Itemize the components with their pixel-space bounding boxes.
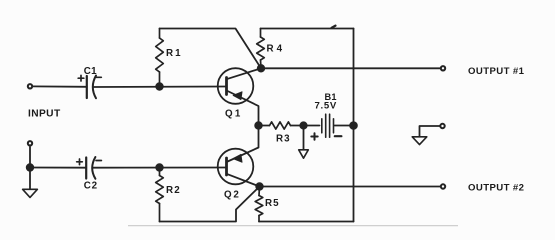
ground right [412,137,427,145]
svg-text:Q2: Q2 [224,190,241,201]
svg-text:R2: R2 [166,185,181,196]
resistor R4 [257,29,265,69]
node Q2 collector junction [256,183,263,190]
node battery plus junction [300,122,306,128]
capacitor C2 [77,157,102,179]
wire C2 to Q2 base [92,167,226,169]
wire battery node to ground [303,126,305,150]
node emitter junction [255,122,262,129]
svg-text:OUTPUT #1: OUTPUT #1 [468,66,525,77]
terminal output 1 [441,66,445,70]
transistor Q1 [218,68,261,125]
svg-text:Q1: Q1 [225,108,242,119]
svg-text:OUTPUT #2: OUTPUT #2 [468,182,524,193]
wire output 2 [260,186,441,188]
ground center [299,150,309,158]
input terminal top [28,84,32,88]
svg-text:R1: R1 [166,48,183,59]
svg-text:R3: R3 [276,134,291,145]
wire input bottom to ground [29,147,31,189]
wire top-right rail [261,26,354,29]
input terminal bottom [28,141,32,145]
wire input to C1 [33,85,87,87]
terminal output 2 [441,184,445,188]
wire input bottom to C2 [30,167,86,169]
resistor R2 [156,168,164,222]
svg-text:7.5V: 7.5V [315,101,338,112]
wire ground terminal [420,126,440,137]
wire right rail vertical [353,29,355,222]
node junction R1/base [156,83,163,90]
node input ground junction [27,164,34,171]
terminal ground right [440,124,444,128]
wire battery to right rail [335,125,354,127]
svg-text:C2: C2 [84,181,98,192]
node Q1 collector junction [258,65,265,72]
battery B1 [311,114,341,140]
wire emitter node to R3 [259,125,270,127]
wire output 1 [261,67,440,69]
svg-text:R4: R4 [267,44,286,55]
node battery minus rail junction [350,122,357,129]
resistor R5 [255,187,263,222]
resistor R1 [156,29,164,87]
capacitor C1 [78,75,101,98]
wire bottom-right rail [259,221,354,223]
transistor Q2 [218,126,260,187]
svg-text:INPUT: INPUT [28,108,61,119]
wire R3 to battery [291,125,320,127]
ground left [23,189,38,197]
wire bottom-left rail [160,187,260,222]
node junction R2/base [156,164,163,171]
svg-text:R5: R5 [265,198,280,209]
svg-text:C1: C1 [84,66,97,77]
resistor R3 [270,122,291,129]
wire C1 to Q1 base [93,86,227,89]
wire top-left rail [160,29,262,69]
